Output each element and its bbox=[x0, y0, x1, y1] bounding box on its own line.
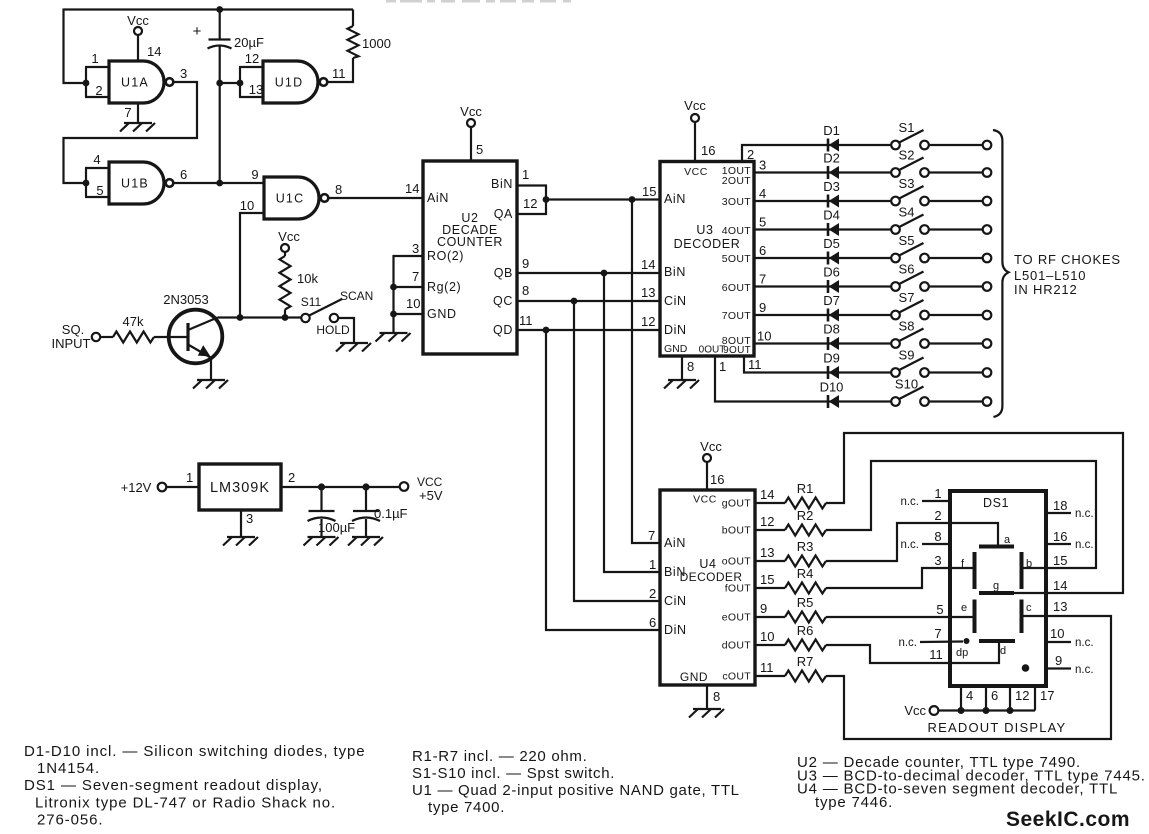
wire U1A input bracket bbox=[85, 67, 87, 97]
wire U3 output row 7 bbox=[754, 300, 891, 315]
switch S1 bbox=[891, 120, 929, 149]
svg-text:D8: D8 bbox=[823, 322, 840, 337]
resistor R5 220 ohm bbox=[785, 595, 826, 623]
svg-text:1: 1 bbox=[522, 167, 529, 182]
svg-text:SeekIC.com: SeekIC.com bbox=[1006, 808, 1130, 831]
svg-text:AiN: AiN bbox=[427, 191, 449, 205]
switch S10 bbox=[891, 377, 929, 406]
node annotation text column 1 bbox=[24, 743, 365, 829]
svg-text:LM309K: LM309K bbox=[210, 480, 270, 496]
resistor R6 220 ohm bbox=[785, 623, 826, 651]
wire U1B output to U1C pin9 bbox=[174, 182, 265, 184]
wire R1 to DS1 bbox=[826, 433, 1123, 593]
wire U1D input bracket bbox=[239, 67, 241, 97]
transistor Q1 2N3053 bbox=[163, 292, 222, 379]
svg-text:D3: D3 bbox=[823, 179, 840, 194]
svg-text:R3: R3 bbox=[797, 539, 814, 554]
switch S8 bbox=[891, 319, 929, 348]
svg-text:n.c.: n.c. bbox=[898, 637, 917, 649]
svg-text:READOUT DISPLAY: READOUT DISPLAY bbox=[928, 720, 1067, 735]
wire U1B input bracket bbox=[85, 168, 87, 197]
svg-text:D6: D6 bbox=[823, 265, 840, 280]
svg-text:13: 13 bbox=[249, 82, 263, 97]
ground HOLD bbox=[336, 343, 371, 352]
svg-text:7OUT: 7OUT bbox=[722, 310, 751, 322]
svg-text:R1-R7 incl. — 220 ohm.: R1-R7 incl. — 220 ohm. bbox=[412, 748, 587, 765]
wire U3 output row 8 bbox=[754, 329, 891, 344]
svg-text:DS1: DS1 bbox=[983, 496, 1009, 510]
svg-text:U1C: U1C bbox=[276, 192, 305, 206]
wire S10 to choke terminal bbox=[929, 397, 992, 406]
pin 8 DS1 n.c. bbox=[900, 529, 950, 551]
svg-text:BiN: BiN bbox=[491, 177, 513, 191]
resistor R2 220 ohm bbox=[785, 508, 826, 536]
svg-text:4OUT: 4OUT bbox=[722, 225, 751, 237]
svg-text:dOUT: dOUT bbox=[722, 640, 751, 652]
segment d bbox=[979, 641, 1015, 657]
svg-text:d: d bbox=[1000, 645, 1006, 657]
node pin4 junction bbox=[958, 707, 965, 714]
pin 2 DS1 wire to segment a bbox=[934, 508, 998, 546]
svg-text:QC: QC bbox=[493, 294, 513, 308]
svg-text:type 7400.: type 7400. bbox=[428, 799, 505, 816]
svg-text:14: 14 bbox=[760, 487, 774, 502]
segment e bbox=[961, 600, 975, 634]
svg-text:QD: QD bbox=[493, 323, 513, 337]
U4 output labels bbox=[722, 498, 752, 683]
wire U4 output pin 14 bbox=[755, 487, 785, 503]
svg-text:1: 1 bbox=[934, 486, 941, 501]
svg-text:2: 2 bbox=[649, 586, 656, 601]
diode D10 bbox=[820, 380, 844, 409]
node U2 pin10 junction bbox=[390, 311, 397, 318]
wire S2 to choke terminal bbox=[929, 168, 992, 177]
power Vcc terminal 10k bbox=[278, 229, 300, 252]
power Vcc terminal U3 bbox=[684, 98, 715, 162]
svg-text:3OUT: 3OUT bbox=[722, 196, 751, 208]
svg-text:15: 15 bbox=[1053, 553, 1067, 568]
node U1A input tie bbox=[83, 80, 90, 87]
pin 10 DS1 n.c. bbox=[1046, 626, 1094, 649]
svg-text:16: 16 bbox=[1053, 529, 1067, 544]
svg-text:U1D: U1D bbox=[275, 76, 304, 90]
svg-text:9: 9 bbox=[760, 601, 767, 616]
power Vcc terminal U4 bbox=[700, 439, 724, 490]
svg-text:8: 8 bbox=[934, 529, 941, 544]
pin 8 U3 ground stub bbox=[682, 356, 694, 379]
svg-text:bOUT: bOUT bbox=[722, 525, 751, 537]
wire QB vertical to U4 pin1 bbox=[604, 273, 660, 572]
svg-text:CiN: CiN bbox=[664, 594, 687, 608]
wire U4 output pin 12 bbox=[755, 514, 785, 530]
node label TO RF CHOKES bbox=[1014, 252, 1121, 297]
wire S7 to choke terminal bbox=[929, 311, 992, 320]
svg-text:14: 14 bbox=[147, 44, 161, 59]
svg-text:c: c bbox=[1026, 602, 1032, 614]
ground U3 bbox=[664, 380, 699, 389]
segment f bbox=[961, 552, 975, 589]
svg-text:BiN: BiN bbox=[664, 265, 686, 279]
resistor R 47k bbox=[100, 314, 186, 343]
svg-text:e: e bbox=[961, 602, 967, 614]
svg-text:6: 6 bbox=[180, 167, 187, 182]
switch S11 bbox=[301, 289, 374, 322]
wire QC to U3 CiN bbox=[517, 283, 660, 301]
wire U3 output row 3 bbox=[754, 186, 891, 201]
svg-text:7: 7 bbox=[759, 272, 766, 287]
op-amp U5 LM309K regulator bbox=[199, 464, 281, 510]
svg-text:S1-S10 incl. — Spst switch.: S1-S10 incl. — Spst switch. bbox=[412, 765, 615, 782]
svg-text:D2: D2 bbox=[823, 151, 840, 166]
diode D2 bbox=[823, 151, 840, 180]
op-amp DS1 readout display box bbox=[950, 491, 1046, 686]
svg-text:n.c.: n.c. bbox=[900, 496, 919, 508]
svg-text:10: 10 bbox=[406, 296, 420, 311]
resistor R1 220 ohm bbox=[785, 481, 826, 509]
svg-text:+: + bbox=[193, 23, 202, 40]
op-amp U1C NAND gate bbox=[264, 177, 328, 219]
svg-text:U3: U3 bbox=[696, 223, 713, 237]
pin 6 DS1 stub bbox=[986, 686, 998, 711]
wire R7 to DS1 bbox=[826, 616, 1111, 739]
pin 3 LM309K ground stub bbox=[241, 510, 253, 536]
pin 14 DS1 wire to segment g bbox=[1014, 578, 1067, 593]
wire U4 output pin 9 bbox=[755, 601, 785, 617]
wire U4 output pin 11 bbox=[755, 660, 785, 676]
node 0.1uF junction bbox=[362, 483, 369, 490]
svg-text:oOUT: oOUT bbox=[722, 556, 751, 568]
svg-text:TO RF CHOKES: TO RF CHOKES bbox=[1014, 252, 1121, 267]
svg-text:10: 10 bbox=[1050, 626, 1064, 641]
svg-text:R7: R7 bbox=[797, 654, 814, 669]
svg-text:COUNTER: COUNTER bbox=[437, 235, 503, 249]
wire QD to U3 DiN bbox=[517, 313, 660, 330]
svg-text:276-056.: 276-056. bbox=[37, 812, 103, 829]
segment g bbox=[979, 580, 1014, 593]
wire R5 to DS1 bbox=[826, 616, 950, 618]
svg-text:D10: D10 bbox=[820, 380, 844, 395]
svg-text:SCAN: SCAN bbox=[340, 289, 373, 303]
svg-text:11: 11 bbox=[929, 647, 943, 662]
diode D1 bbox=[823, 123, 840, 152]
op-amp U4 decoder box bbox=[660, 490, 755, 685]
svg-text:eOUT: eOUT bbox=[722, 612, 751, 624]
capacitor C2 100uF bbox=[308, 487, 356, 536]
ground LM309K bbox=[223, 537, 258, 546]
svg-text:S9: S9 bbox=[899, 348, 915, 363]
resistor R4 220 ohm bbox=[785, 566, 826, 594]
svg-text:Vcc: Vcc bbox=[127, 13, 149, 28]
faint cropped watermark top bbox=[386, 0, 571, 3]
svg-text:R6: R6 bbox=[797, 623, 814, 638]
svg-text:D1-D10 incl. — Silicon switchi: D1-D10 incl. — Silicon switching diodes,… bbox=[24, 743, 365, 760]
wire S4 to choke terminal bbox=[929, 225, 992, 234]
svg-text:S8: S8 bbox=[899, 319, 915, 334]
op-amp U2 decade counter box bbox=[423, 161, 517, 354]
node U1B input tie bbox=[83, 180, 90, 187]
wire R6 to DS1 bbox=[826, 645, 950, 663]
svg-text:VCC: VCC bbox=[693, 494, 717, 506]
svg-text:47k: 47k bbox=[123, 314, 144, 329]
resistor R3 220 ohm bbox=[785, 539, 826, 567]
svg-text:RO(2): RO(2) bbox=[427, 249, 464, 263]
wire S3 to choke terminal bbox=[929, 197, 992, 206]
svg-text:fOUT: fOUT bbox=[725, 583, 752, 595]
ground Q1 emitter bbox=[193, 380, 228, 389]
svg-text:6: 6 bbox=[991, 688, 998, 703]
svg-text:a: a bbox=[1004, 534, 1011, 546]
svg-text:D7: D7 bbox=[823, 293, 840, 308]
node annotation text column 2 bbox=[412, 748, 740, 816]
wire U2 pins 3,7,10 to ground bbox=[394, 256, 424, 332]
svg-text:4: 4 bbox=[93, 152, 100, 167]
switch S2 bbox=[891, 148, 929, 177]
node QD junction bbox=[543, 327, 550, 334]
pin 1 U2 BiN loop to pin 12 QA bbox=[517, 167, 546, 214]
svg-text:12: 12 bbox=[1015, 688, 1029, 703]
svg-text:12: 12 bbox=[245, 51, 259, 66]
svg-text:9OUT: 9OUT bbox=[723, 345, 751, 356]
svg-text:n.c.: n.c. bbox=[1075, 637, 1094, 649]
diode D8 bbox=[823, 322, 840, 351]
svg-text:6: 6 bbox=[759, 243, 766, 258]
svg-text:14: 14 bbox=[641, 257, 655, 272]
op-amp U1A NAND gate bbox=[109, 61, 173, 103]
svg-text:9: 9 bbox=[759, 300, 766, 315]
op-amp U1B NAND gate bbox=[109, 162, 173, 204]
svg-text:U1A: U1A bbox=[121, 76, 149, 90]
svg-text:Rg(2): Rg(2) bbox=[427, 280, 461, 294]
svg-text:D1: D1 bbox=[823, 123, 840, 138]
wire U3 output row 4 bbox=[754, 215, 891, 230]
op-amp U3 decoder box bbox=[660, 162, 754, 357]
svg-text:3: 3 bbox=[934, 553, 941, 568]
switch S4 bbox=[891, 205, 929, 234]
svg-text:IN HR212: IN HR212 bbox=[1014, 282, 1077, 297]
pin 11 DS1 wire to segment d bbox=[929, 641, 999, 663]
wire U3 output row 5 bbox=[754, 243, 891, 258]
wire U3 output row 6 bbox=[754, 272, 891, 287]
ground U1A pin7 bbox=[120, 123, 155, 132]
svg-text:S3: S3 bbox=[899, 176, 915, 191]
svg-text:BiN: BiN bbox=[664, 565, 686, 579]
svg-text:6: 6 bbox=[649, 615, 656, 630]
svg-text:10k: 10k bbox=[297, 271, 318, 286]
node U2 pin7 junction bbox=[390, 284, 397, 291]
capacitor C1 20uF bbox=[193, 10, 264, 184]
node pin12 junction bbox=[1007, 707, 1014, 714]
svg-text:D4: D4 bbox=[823, 208, 840, 223]
ground 0.1uF bbox=[348, 537, 383, 546]
pin 14 U1A Vcc stub bbox=[138, 35, 161, 61]
node AiN net junction bbox=[629, 196, 636, 203]
wire U3 output row 10 bbox=[715, 356, 891, 402]
svg-text:L501–L510: L501–L510 bbox=[1014, 268, 1086, 283]
svg-text:5: 5 bbox=[96, 183, 103, 198]
svg-text:+12V: +12V bbox=[121, 480, 152, 495]
svg-text:Vcc: Vcc bbox=[904, 703, 926, 718]
svg-text:9: 9 bbox=[1055, 653, 1062, 668]
wire U1A output to U1B inputs bbox=[64, 82, 198, 183]
node +12V input terminal bbox=[121, 480, 167, 495]
segment c bbox=[1022, 600, 1033, 634]
pin 7 DS1 n.c. to dp bbox=[898, 626, 963, 649]
svg-text:AiN: AiN bbox=[664, 192, 686, 206]
svg-text:g: g bbox=[993, 580, 999, 592]
svg-text:4: 4 bbox=[966, 688, 973, 703]
svg-text:2: 2 bbox=[747, 147, 754, 162]
node QC junction bbox=[571, 298, 578, 305]
pin 3 DS1 wire to segment f bbox=[934, 553, 974, 568]
ground 100uF bbox=[304, 537, 339, 546]
pin 18 DS1 n.c. bbox=[1046, 498, 1094, 520]
svg-text:QA: QA bbox=[494, 207, 513, 221]
wire AiN vertical to U4 pin7 bbox=[632, 200, 660, 544]
node cap to U1D wire bbox=[216, 80, 223, 87]
switch S3 bbox=[891, 176, 929, 205]
svg-text:DS1 — Seven-segment readout di: DS1 — Seven-segment readout display, bbox=[24, 777, 323, 794]
svg-text:n.c.: n.c. bbox=[1075, 508, 1094, 520]
pin 10 U1C stub bbox=[240, 198, 264, 318]
svg-text:U1B: U1B bbox=[121, 177, 149, 191]
svg-text:6OUT: 6OUT bbox=[722, 282, 751, 294]
svg-text:14: 14 bbox=[405, 181, 419, 196]
node 100uF junction bbox=[318, 483, 325, 490]
wire R4 to DS1 bbox=[826, 568, 950, 588]
svg-text:S7: S7 bbox=[899, 290, 915, 305]
svg-text:1N4154.: 1N4154. bbox=[37, 760, 100, 777]
pin 4 DS1 stub bbox=[961, 686, 973, 711]
segment dp dot bbox=[956, 638, 970, 659]
svg-text:13: 13 bbox=[1053, 599, 1067, 614]
svg-text:9: 9 bbox=[251, 167, 258, 182]
pin 9 DS1 n.c. bbox=[1046, 653, 1094, 676]
svg-text:3: 3 bbox=[412, 241, 419, 256]
wire R2 to DS1 bbox=[826, 461, 1096, 568]
svg-text:3: 3 bbox=[759, 158, 766, 173]
svg-text:7: 7 bbox=[412, 269, 419, 284]
pin 5 DS1 wire to segment e bbox=[936, 602, 974, 617]
brace to RF chokes bbox=[993, 130, 1009, 417]
svg-text:1000: 1000 bbox=[362, 36, 391, 51]
svg-text:1: 1 bbox=[186, 470, 193, 485]
svg-text:R2: R2 bbox=[797, 508, 814, 523]
svg-text:S5: S5 bbox=[899, 233, 915, 248]
svg-text:1: 1 bbox=[649, 557, 656, 572]
svg-text:CiN: CiN bbox=[664, 294, 687, 308]
wire U3 output row 1 bbox=[742, 145, 891, 162]
diode D4 bbox=[823, 208, 840, 237]
wire U4 output pin 15 bbox=[755, 572, 785, 588]
svg-text:2: 2 bbox=[95, 83, 102, 98]
svg-text:gOUT: gOUT bbox=[722, 498, 751, 510]
wire rail down to U1A inputs bbox=[64, 9, 87, 84]
svg-text:S2: S2 bbox=[899, 148, 915, 163]
svg-text:2N3053: 2N3053 bbox=[163, 292, 209, 307]
diode D3 bbox=[823, 179, 840, 208]
wire U4 output pin 13 bbox=[755, 545, 785, 561]
svg-text:GND: GND bbox=[427, 307, 457, 321]
wire U1D output to resistor bbox=[328, 58, 354, 82]
node pin6 junction bbox=[983, 707, 990, 714]
capacitor C3 0.1uF bbox=[352, 487, 408, 536]
wire U1C output to U2 AiN bbox=[329, 197, 424, 199]
svg-text:8: 8 bbox=[713, 689, 720, 704]
svg-text:5: 5 bbox=[936, 602, 943, 617]
svg-text:3: 3 bbox=[180, 66, 187, 81]
node 10k junction bbox=[282, 314, 289, 321]
svg-text:12: 12 bbox=[641, 314, 655, 329]
svg-text:8: 8 bbox=[522, 283, 529, 298]
switch S6 bbox=[891, 262, 929, 291]
switch S5 bbox=[891, 233, 929, 262]
svg-text:VCC: VCC bbox=[417, 475, 443, 489]
node QA loop junction bbox=[543, 196, 550, 203]
pin 12 DS1 stub bbox=[1010, 686, 1029, 711]
svg-text:11: 11 bbox=[519, 313, 533, 328]
svg-text:8: 8 bbox=[687, 359, 694, 374]
node 20uF bottom tie bbox=[216, 180, 223, 187]
svg-text:13: 13 bbox=[641, 285, 655, 300]
wire S5 to choke terminal bbox=[929, 254, 992, 263]
svg-text:100µF: 100µF bbox=[318, 520, 355, 535]
decimal point dot bbox=[1022, 664, 1030, 672]
wire S6 to choke terminal bbox=[929, 282, 992, 291]
svg-text:+5V: +5V bbox=[419, 488, 443, 503]
svg-text:10: 10 bbox=[757, 329, 771, 344]
svg-text:VCC: VCC bbox=[684, 166, 708, 178]
pin 1 DS1 n.c. bbox=[900, 486, 950, 508]
svg-text:n.c.: n.c. bbox=[1075, 664, 1094, 676]
wire S9 to choke terminal bbox=[929, 368, 992, 377]
svg-text:D9: D9 bbox=[823, 351, 840, 366]
svg-text:R1: R1 bbox=[797, 481, 814, 496]
diode D9 bbox=[823, 351, 840, 380]
op-amp U1D NAND gate bbox=[263, 61, 327, 103]
svg-text:QB: QB bbox=[494, 266, 513, 280]
node junction top rail / 20uF bbox=[216, 6, 223, 13]
svg-text:GND: GND bbox=[680, 670, 708, 684]
svg-text:15: 15 bbox=[760, 572, 774, 587]
wire R3 to DS1 bbox=[826, 523, 950, 561]
svg-text:12: 12 bbox=[760, 514, 774, 529]
node HOLD terminal bbox=[316, 314, 354, 342]
svg-text:S4: S4 bbox=[899, 205, 915, 220]
svg-text:n.c.: n.c. bbox=[1075, 539, 1094, 551]
svg-text:HOLD: HOLD bbox=[316, 323, 350, 337]
wire to U1D inputs bbox=[220, 82, 240, 84]
svg-text:Vcc: Vcc bbox=[460, 104, 482, 119]
svg-text:16: 16 bbox=[710, 472, 724, 487]
svg-text:7: 7 bbox=[934, 626, 941, 641]
svg-text:SQ.: SQ. bbox=[62, 322, 84, 337]
segment a bbox=[979, 534, 1014, 547]
svg-text:18: 18 bbox=[1053, 498, 1067, 513]
svg-text:5: 5 bbox=[759, 215, 766, 230]
diode D7 bbox=[823, 293, 840, 322]
svg-text:7: 7 bbox=[648, 528, 655, 543]
svg-text:11: 11 bbox=[760, 660, 774, 675]
wire U3 output row 2 bbox=[754, 158, 891, 173]
svg-text:7: 7 bbox=[124, 105, 131, 120]
svg-text:U1 — Quad 2-input positive NAN: U1 — Quad 2-input positive NAND gate, TT… bbox=[412, 782, 740, 799]
ground U4 bbox=[689, 709, 724, 718]
svg-text:GND: GND bbox=[664, 343, 688, 355]
U4 input pin labels bbox=[648, 528, 656, 630]
wire QD vertical to U4 pin6 bbox=[546, 330, 660, 630]
svg-text:INPUT: INPUT bbox=[52, 336, 91, 351]
wire collector node bbox=[218, 316, 302, 318]
